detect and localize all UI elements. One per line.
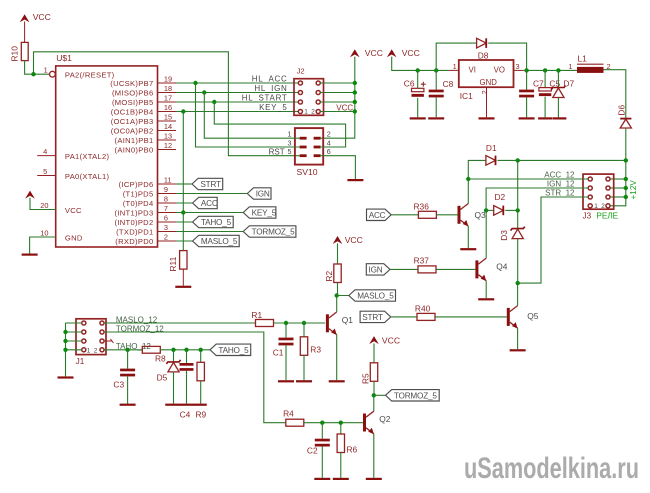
wire Q5 emitter to ground bbox=[517, 328, 519, 349]
diode D2 bbox=[484, 192, 520, 215]
svg-text:VCC: VCC bbox=[65, 206, 82, 215]
svg-text:R6: R6 bbox=[347, 445, 358, 455]
svg-text:D6: D6 bbox=[616, 105, 626, 116]
connector J1 bbox=[76, 319, 106, 366]
wire VCC node to IC1 pin 1 bbox=[392, 57, 457, 73]
svg-text:TAHO_5: TAHO_5 bbox=[201, 218, 232, 227]
svg-text:14: 14 bbox=[164, 122, 172, 131]
net flag MASLO_5 at Q1 bbox=[349, 290, 396, 301]
svg-text:2: 2 bbox=[94, 347, 98, 354]
net flag TAHO_5 at pin 6 bbox=[176, 216, 233, 227]
ground at C2 bbox=[314, 478, 330, 480]
net label STR_12 bbox=[545, 188, 575, 197]
svg-text:1: 1 bbox=[288, 130, 292, 139]
svg-text:3: 3 bbox=[516, 62, 520, 71]
svg-text:ACC: ACC bbox=[201, 199, 218, 208]
svg-text:D5: D5 bbox=[157, 372, 168, 382]
diode D6 bbox=[616, 105, 631, 128]
ground at R6 bbox=[333, 478, 349, 480]
wire R1 to Q1 base bbox=[274, 321, 326, 325]
wire SV10 pin 6 to ground bbox=[321, 156, 356, 179]
wire R4 to Q2 base bbox=[304, 421, 363, 425]
svg-text:VCC: VCC bbox=[345, 235, 363, 245]
svg-text:KEY_5: KEY_5 bbox=[252, 209, 277, 218]
svg-text:ACC: ACC bbox=[369, 211, 386, 220]
net flag STRT at pin 11 bbox=[176, 178, 223, 189]
svg-text:R36: R36 bbox=[414, 201, 430, 211]
svg-text:HL_START: HL_START bbox=[242, 94, 288, 103]
power VCC symbol above R5 bbox=[369, 335, 400, 345]
resistor R10 bbox=[10, 42, 29, 61]
svg-text:(T1)PD5: (T1)PD5 bbox=[123, 190, 154, 199]
svg-text:R10: R10 bbox=[10, 46, 20, 62]
ground at C3 bbox=[120, 404, 136, 406]
svg-text:1: 1 bbox=[453, 62, 457, 71]
svg-text:C4: C4 bbox=[180, 409, 191, 419]
wire MASLO_12 J1 to R1 bbox=[104, 322, 256, 324]
net flag IGN (drive) bbox=[366, 264, 418, 275]
net label RST near SV10 pin 5 bbox=[269, 147, 285, 156]
svg-text:IC1: IC1 bbox=[460, 91, 473, 101]
svg-text:2: 2 bbox=[480, 90, 489, 94]
svg-text:1: 1 bbox=[304, 109, 308, 116]
svg-text:3: 3 bbox=[288, 138, 292, 147]
net flag IGN at pin 9 bbox=[176, 188, 271, 199]
zener diode D7 bbox=[551, 70, 574, 117]
U$1 pin 13 (AIN1)PB1 stub bbox=[115, 132, 177, 146]
wire U$1 pin 10 to ground bbox=[30, 229, 83, 254]
ground at C8 bbox=[428, 117, 444, 119]
svg-text:(ICP)PD6: (ICP)PD6 bbox=[119, 180, 154, 189]
ground at Q3 emitter bbox=[460, 248, 476, 250]
ground at C1 bbox=[278, 380, 294, 382]
svg-text:PA0(XTAL1): PA0(XTAL1) bbox=[65, 172, 110, 181]
svg-text:U$1: U$1 bbox=[56, 53, 72, 63]
wire TAHO_12 J1 to R8 bbox=[104, 348, 142, 352]
wire R2 to MASLO_5 node bbox=[338, 283, 349, 296]
wire R40 to Q5 base bbox=[435, 316, 507, 318]
wire U$1 pin 18 to SV10 pin 1 bbox=[204, 93, 299, 139]
svg-text:C8: C8 bbox=[443, 79, 454, 89]
svg-text:R40: R40 bbox=[415, 304, 431, 314]
net label HL_IGN bbox=[254, 84, 287, 93]
svg-text:9: 9 bbox=[164, 185, 168, 194]
ground at J1 bbox=[58, 376, 74, 378]
U$1 pin 1 inverting bubble bbox=[44, 65, 56, 77]
svg-text:VCC: VCC bbox=[336, 104, 353, 113]
svg-text:TORMOZ_5: TORMOZ_5 bbox=[394, 391, 437, 400]
svg-text:HL_IGN: HL_IGN bbox=[254, 84, 287, 93]
svg-text:(OC1B)PB4: (OC1B)PB4 bbox=[111, 108, 154, 117]
svg-text:uSamodelkina.ru: uSamodelkina.ru bbox=[464, 452, 639, 485]
U$1 pin 1 label PA2(/RESET) bbox=[65, 70, 115, 79]
svg-text:VCC: VCC bbox=[365, 48, 383, 58]
wire HL_IGN net U$1 pin 18 to J2 pad 3 bbox=[176, 90, 298, 94]
ground at Q5 emitter bbox=[510, 349, 526, 351]
resistor R40 bbox=[415, 304, 435, 321]
wire +12V rail down J3 right pads bbox=[610, 160, 628, 205]
svg-text:VI: VI bbox=[469, 66, 476, 75]
power VCC symbol above J2 bbox=[350, 48, 383, 58]
svg-text:VCC: VCC bbox=[33, 12, 51, 22]
wire VCC rail down J2 right pads to SV10 pin 2 bbox=[320, 57, 357, 139]
svg-text:19: 19 bbox=[164, 75, 172, 84]
wire L1 pin2 to +12V rail corner bbox=[604, 70, 626, 119]
U$1 pin 2 (RXD)PD0 stub bbox=[115, 233, 176, 247]
svg-text:2: 2 bbox=[311, 109, 315, 116]
U$1 pin 6 (INT0)PD2 stub bbox=[115, 214, 177, 228]
svg-text:STRT: STRT bbox=[200, 180, 221, 189]
U$1 pin 12 (AIN0)PB0 stub bbox=[115, 141, 177, 155]
svg-text:STRT: STRT bbox=[362, 313, 383, 322]
capacitor C5 (polarized) bbox=[539, 70, 561, 117]
svg-text:C2: C2 bbox=[307, 445, 318, 455]
wire R36 to Q3 base bbox=[436, 214, 457, 216]
capacitor C4 bbox=[180, 350, 194, 420]
svg-text:MASLO_5: MASLO_5 bbox=[201, 237, 238, 246]
wire /RESET net up and over to SV10 pin 5 bbox=[34, 52, 300, 156]
svg-text:(MOSI)PB5: (MOSI)PB5 bbox=[112, 98, 154, 107]
svg-text:18: 18 bbox=[164, 84, 172, 93]
svg-text:L1: L1 bbox=[578, 54, 588, 64]
U$1 pin 18 (MISO)PB6 stub bbox=[112, 84, 176, 98]
svg-text:(UCSK)PB7: (UCSK)PB7 bbox=[110, 79, 153, 88]
svg-text:R37: R37 bbox=[414, 255, 430, 265]
resistor R11 bbox=[168, 251, 187, 272]
net label ACC_12 bbox=[544, 170, 575, 179]
transistor Q3 bbox=[458, 204, 487, 227]
svg-text:MASLO_5: MASLO_5 bbox=[357, 292, 394, 301]
svg-text:J1: J1 bbox=[76, 357, 85, 366]
net flag TORMOZ_5 at pin 3 bbox=[176, 226, 296, 237]
net label MASLO_12 bbox=[116, 315, 158, 324]
net label HL_ACC bbox=[252, 75, 288, 84]
svg-text:R8: R8 bbox=[155, 353, 166, 363]
svg-text:PA1(XTAL2): PA1(XTAL2) bbox=[65, 152, 110, 161]
svg-text:GND: GND bbox=[65, 233, 83, 242]
svg-text:GND: GND bbox=[480, 78, 498, 87]
ground at Q2 emitter bbox=[366, 478, 382, 480]
transistor Q4 bbox=[475, 258, 507, 281]
watermark uSamodelkina.ru bbox=[464, 452, 639, 485]
capacitor C3 bbox=[113, 350, 135, 404]
net flag TORMOZ_5 at Q2 bbox=[386, 390, 440, 401]
svg-text:IGN: IGN bbox=[256, 190, 270, 199]
svg-text:3: 3 bbox=[164, 223, 168, 232]
svg-text:R9: R9 bbox=[196, 409, 207, 419]
svg-text:SV10: SV10 bbox=[297, 167, 318, 177]
inductor L1 bbox=[568, 54, 610, 73]
svg-text:1: 1 bbox=[87, 347, 91, 354]
wire D6 to D1 row bbox=[625, 128, 627, 160]
capacitor C6 (polarized) bbox=[404, 70, 426, 117]
voltage regulator IC1 bbox=[449, 60, 524, 117]
net flag MASLO_5 at pin 2 bbox=[176, 235, 239, 246]
svg-text:C7: C7 bbox=[533, 78, 544, 88]
transistor Q5 bbox=[507, 306, 539, 329]
wire Q4 emitter to ground bbox=[485, 281, 487, 299]
wire Q2 emitter to ground bbox=[373, 434, 375, 478]
svg-text:5: 5 bbox=[43, 167, 47, 176]
capacitor C2 bbox=[307, 423, 330, 478]
ground at C6 bbox=[410, 117, 426, 119]
capacitor C1 bbox=[273, 323, 294, 380]
wire Q3 collector to D1 anode bbox=[466, 160, 486, 203]
svg-text:HL_ACC: HL_ACC bbox=[252, 75, 288, 84]
power VCC symbol at IC1 input bbox=[387, 48, 420, 58]
svg-text:TORMOZ_5: TORMOZ_5 bbox=[252, 228, 295, 237]
svg-text:2: 2 bbox=[164, 233, 168, 242]
net label HL_START bbox=[242, 94, 288, 103]
wire VCC to R10 top bbox=[24, 22, 26, 43]
capacitor C7 bbox=[519, 70, 544, 117]
wire HL_ACC net U$1 pin 19 to J2 pad 1 bbox=[176, 81, 298, 85]
ground at U$1 pin 10 bbox=[22, 254, 38, 256]
net label TAHO_12 bbox=[116, 342, 152, 351]
wire Q1 collector to MASLO_5 node bbox=[335, 293, 339, 312]
wire TORMOZ_12 J1 down to R4 bbox=[104, 332, 286, 423]
wire ACC_12 J3 pad1 to Q3 collector bbox=[468, 178, 588, 180]
svg-text:10: 10 bbox=[40, 229, 48, 238]
transistor Q2 bbox=[363, 411, 391, 434]
ground at R3 bbox=[296, 380, 312, 382]
diode D8 across regulator bbox=[436, 38, 526, 70]
svg-text:VCC: VCC bbox=[382, 335, 400, 345]
U$1 pin 3 (TXD)PD1 stub bbox=[116, 223, 176, 237]
connector J2 bbox=[294, 67, 324, 116]
svg-text:C6: C6 bbox=[404, 78, 415, 88]
net label +12V bbox=[629, 180, 638, 200]
connector SV10 bbox=[288, 128, 331, 177]
svg-text:D1: D1 bbox=[486, 143, 497, 153]
svg-text:J2: J2 bbox=[297, 67, 305, 76]
ground at Q1 emitter bbox=[329, 380, 345, 382]
svg-text:(TXD)PD1: (TXD)PD1 bbox=[116, 228, 153, 237]
U$1 pin 19 (UCSK)PB7 stub bbox=[110, 75, 176, 89]
power VCC symbol above R2 bbox=[333, 235, 363, 245]
svg-text:11: 11 bbox=[164, 176, 172, 185]
net label KEY_5 bbox=[259, 103, 287, 112]
resistor R6 bbox=[337, 423, 357, 478]
svg-text:1: 1 bbox=[568, 62, 572, 71]
svg-text:7: 7 bbox=[164, 204, 168, 213]
svg-text:D7: D7 bbox=[563, 78, 574, 88]
wire KEY_5 net U$1 pin16 down to pin 7 row and R11 bbox=[181, 112, 185, 251]
svg-text:STR_12: STR_12 bbox=[545, 188, 575, 197]
svg-text:5: 5 bbox=[288, 147, 292, 156]
net flag ACC at pin 8 bbox=[176, 197, 218, 208]
svg-text:R4: R4 bbox=[283, 409, 294, 419]
wire R11 to ground bbox=[182, 269, 184, 286]
U$1 pin 11 (ICP)PD6 stub bbox=[119, 176, 176, 190]
stub J1 pad 6 (row3 right, n.c.) bbox=[104, 339, 114, 343]
resistor R4 bbox=[283, 409, 304, 427]
svg-text:2: 2 bbox=[327, 130, 331, 139]
svg-text:D8: D8 bbox=[478, 51, 489, 61]
svg-text:ACC_12: ACC_12 bbox=[544, 170, 575, 179]
svg-text:TAHO_5: TAHO_5 bbox=[218, 346, 249, 355]
wire R37 to Q4 base bbox=[436, 268, 475, 270]
svg-text:C3: C3 bbox=[113, 380, 124, 390]
svg-text:6: 6 bbox=[327, 147, 331, 156]
ground at Q4 emitter bbox=[478, 298, 494, 300]
svg-text:KEY_5: KEY_5 bbox=[259, 103, 287, 112]
wire Q5 collector up to D3 node bbox=[517, 283, 519, 306]
resistor R1 bbox=[251, 310, 273, 326]
wire Q3 emitter to ground bbox=[467, 226, 469, 248]
svg-text:(INT1)PD3: (INT1)PD3 bbox=[115, 209, 154, 218]
U$1 pin 9 (T1)PD5 stub bbox=[123, 185, 176, 199]
svg-text:(AIN0)PB0: (AIN0)PB0 bbox=[115, 146, 154, 155]
svg-text:J3: J3 bbox=[583, 211, 592, 220]
svg-text:+12V: +12V bbox=[629, 180, 638, 200]
svg-text:VCC: VCC bbox=[402, 48, 420, 58]
connector J3 (relays) bbox=[583, 174, 619, 220]
wire R5 to TORMOZ_5 node bbox=[374, 381, 386, 395]
svg-text:4: 4 bbox=[43, 147, 47, 156]
svg-text:16: 16 bbox=[164, 103, 172, 112]
svg-text:Q4: Q4 bbox=[496, 262, 508, 272]
wire KEY_5 net U$1 pin 16 to J2 pad 7 bbox=[176, 109, 298, 113]
svg-text:R5: R5 bbox=[360, 373, 370, 384]
svg-text:R1: R1 bbox=[251, 310, 262, 320]
svg-text:VO: VO bbox=[494, 66, 505, 75]
resistor R9 bbox=[196, 350, 207, 420]
U$1 pin 7 (INT1)PD3 stub bbox=[115, 204, 177, 218]
resistor R37 bbox=[414, 255, 436, 273]
wire U$1 pin 17 to SV10 pin 4 bbox=[214, 102, 345, 147]
wire R8 to TAHO_5 flag bbox=[160, 348, 210, 352]
svg-text:15: 15 bbox=[164, 113, 172, 122]
U$1 pin 5 stub bbox=[37, 167, 109, 181]
svg-text:2: 2 bbox=[601, 203, 605, 210]
zener diode D3 bbox=[499, 227, 525, 286]
svg-text:12: 12 bbox=[164, 141, 172, 150]
svg-text:(AIN1)PB1: (AIN1)PB1 bbox=[115, 136, 154, 145]
svg-text:20: 20 bbox=[40, 201, 48, 210]
svg-text:4: 4 bbox=[327, 138, 331, 147]
wire Q4 collector up to D2 node bbox=[485, 210, 487, 258]
power VCC symbol (top-left, feeds R10) bbox=[20, 12, 51, 22]
power VCC symbol at U$1 pin 20 bbox=[25, 191, 35, 199]
svg-text:Q2: Q2 bbox=[379, 414, 391, 424]
ground at IC1 GND pin bbox=[479, 117, 495, 119]
svg-text:IGN: IGN bbox=[369, 265, 383, 274]
U$1 pin 15 (OC1A)PB3 stub bbox=[111, 113, 176, 127]
resistor R2 bbox=[324, 243, 341, 282]
net label IGN_12 bbox=[547, 179, 575, 188]
svg-text:(RXD)PD0: (RXD)PD0 bbox=[115, 237, 153, 246]
net flag KEY_5 at pin 7 bbox=[176, 207, 277, 218]
wire IC1 pin 3 output node bbox=[516, 62, 578, 73]
capacitor C8 bbox=[429, 70, 454, 117]
wire J1 left pads common to ground bbox=[63, 323, 82, 376]
svg-text:Q1: Q1 bbox=[342, 315, 354, 325]
svg-text:R2: R2 bbox=[324, 270, 334, 281]
svg-text:(OC1A)PB3: (OC1A)PB3 bbox=[111, 117, 154, 126]
svg-text:D3: D3 bbox=[499, 230, 509, 241]
svg-text:D2: D2 bbox=[495, 192, 506, 202]
net flag ACC (drive) bbox=[367, 209, 419, 220]
svg-text:C1: C1 bbox=[273, 347, 284, 357]
resistor R36 bbox=[414, 201, 437, 218]
svg-text:17: 17 bbox=[164, 94, 172, 103]
wire STR_12 J3 pad5 down to D3 bottom node bbox=[518, 197, 589, 283]
svg-text:R11: R11 bbox=[168, 256, 178, 271]
svg-text:(INT0)PD2: (INT0)PD2 bbox=[115, 218, 154, 227]
ground at D7 bbox=[552, 117, 566, 119]
wire R10 bottom to U$1 pin 1 (/RESET net) bbox=[25, 61, 50, 77]
wire VCC to U$1 pin 20 bbox=[30, 198, 82, 215]
ground at R11 bbox=[175, 286, 191, 288]
svg-text:1: 1 bbox=[594, 203, 598, 210]
wire D1/D2 cathode vertical bbox=[517, 160, 519, 228]
wire Q2 collector to TORMOZ_5 node bbox=[372, 393, 376, 411]
svg-text:(OC0A)PB2: (OC0A)PB2 bbox=[111, 127, 154, 136]
svg-text:1: 1 bbox=[44, 65, 48, 74]
svg-text:6: 6 bbox=[164, 214, 168, 223]
wire D1 cathode across to +12 vertical bbox=[498, 158, 629, 162]
svg-text:IGN_12: IGN_12 bbox=[547, 179, 575, 188]
svg-text:РЕЛЕ: РЕЛЕ bbox=[596, 211, 618, 220]
svg-text:RST: RST bbox=[269, 147, 285, 156]
U$1 pin 16 (OC1B)PB4 stub bbox=[111, 103, 176, 117]
zener diode D5 bbox=[157, 350, 181, 404]
svg-text:(MISO)PB6: (MISO)PB6 bbox=[112, 89, 154, 98]
svg-text:R3: R3 bbox=[310, 345, 321, 355]
U$1 pin 8 (T0)PD4 stub bbox=[123, 195, 176, 209]
ground bar at D5 C4 R9 bbox=[165, 404, 207, 406]
net flag TAHO_5 bbox=[210, 344, 251, 355]
wire Q1 emitter to ground bbox=[336, 335, 338, 381]
wire HL_START net U$1 pin 17 to J2 pad 5 bbox=[176, 100, 298, 104]
net flag STRT (drive) bbox=[360, 311, 417, 322]
transistor Q1 bbox=[326, 312, 353, 335]
svg-text:PA2(/RESET): PA2(/RESET) bbox=[65, 70, 115, 79]
svg-text:(T0)PD4: (T0)PD4 bbox=[123, 199, 154, 208]
diode D1 bbox=[486, 143, 497, 165]
net label TORMOZ_12 bbox=[116, 325, 164, 334]
svg-text:8: 8 bbox=[164, 195, 168, 204]
ground at C7 bbox=[519, 117, 535, 119]
resistor R5 bbox=[360, 344, 377, 385]
U$1 pin 17 (MOSI)PB5 stub bbox=[112, 94, 176, 108]
resistor R3 bbox=[300, 323, 321, 380]
ground at SV10 pin 6 bbox=[347, 179, 363, 181]
resistor R8 bbox=[142, 346, 166, 363]
U$1 pin 4 stub bbox=[37, 147, 109, 161]
wire IGN_12 J3 pad3 to D2 anode node bbox=[486, 188, 588, 210]
U$1 pin 14 (OC0A)PB2 stub bbox=[111, 122, 176, 136]
wire U$1 pin 19 to SV10 pin 3 bbox=[196, 83, 300, 147]
svg-text:Q5: Q5 bbox=[527, 311, 539, 321]
svg-text:13: 13 bbox=[164, 132, 172, 141]
ground at C5 bbox=[538, 117, 552, 119]
mcu U$1 box bbox=[56, 53, 158, 247]
